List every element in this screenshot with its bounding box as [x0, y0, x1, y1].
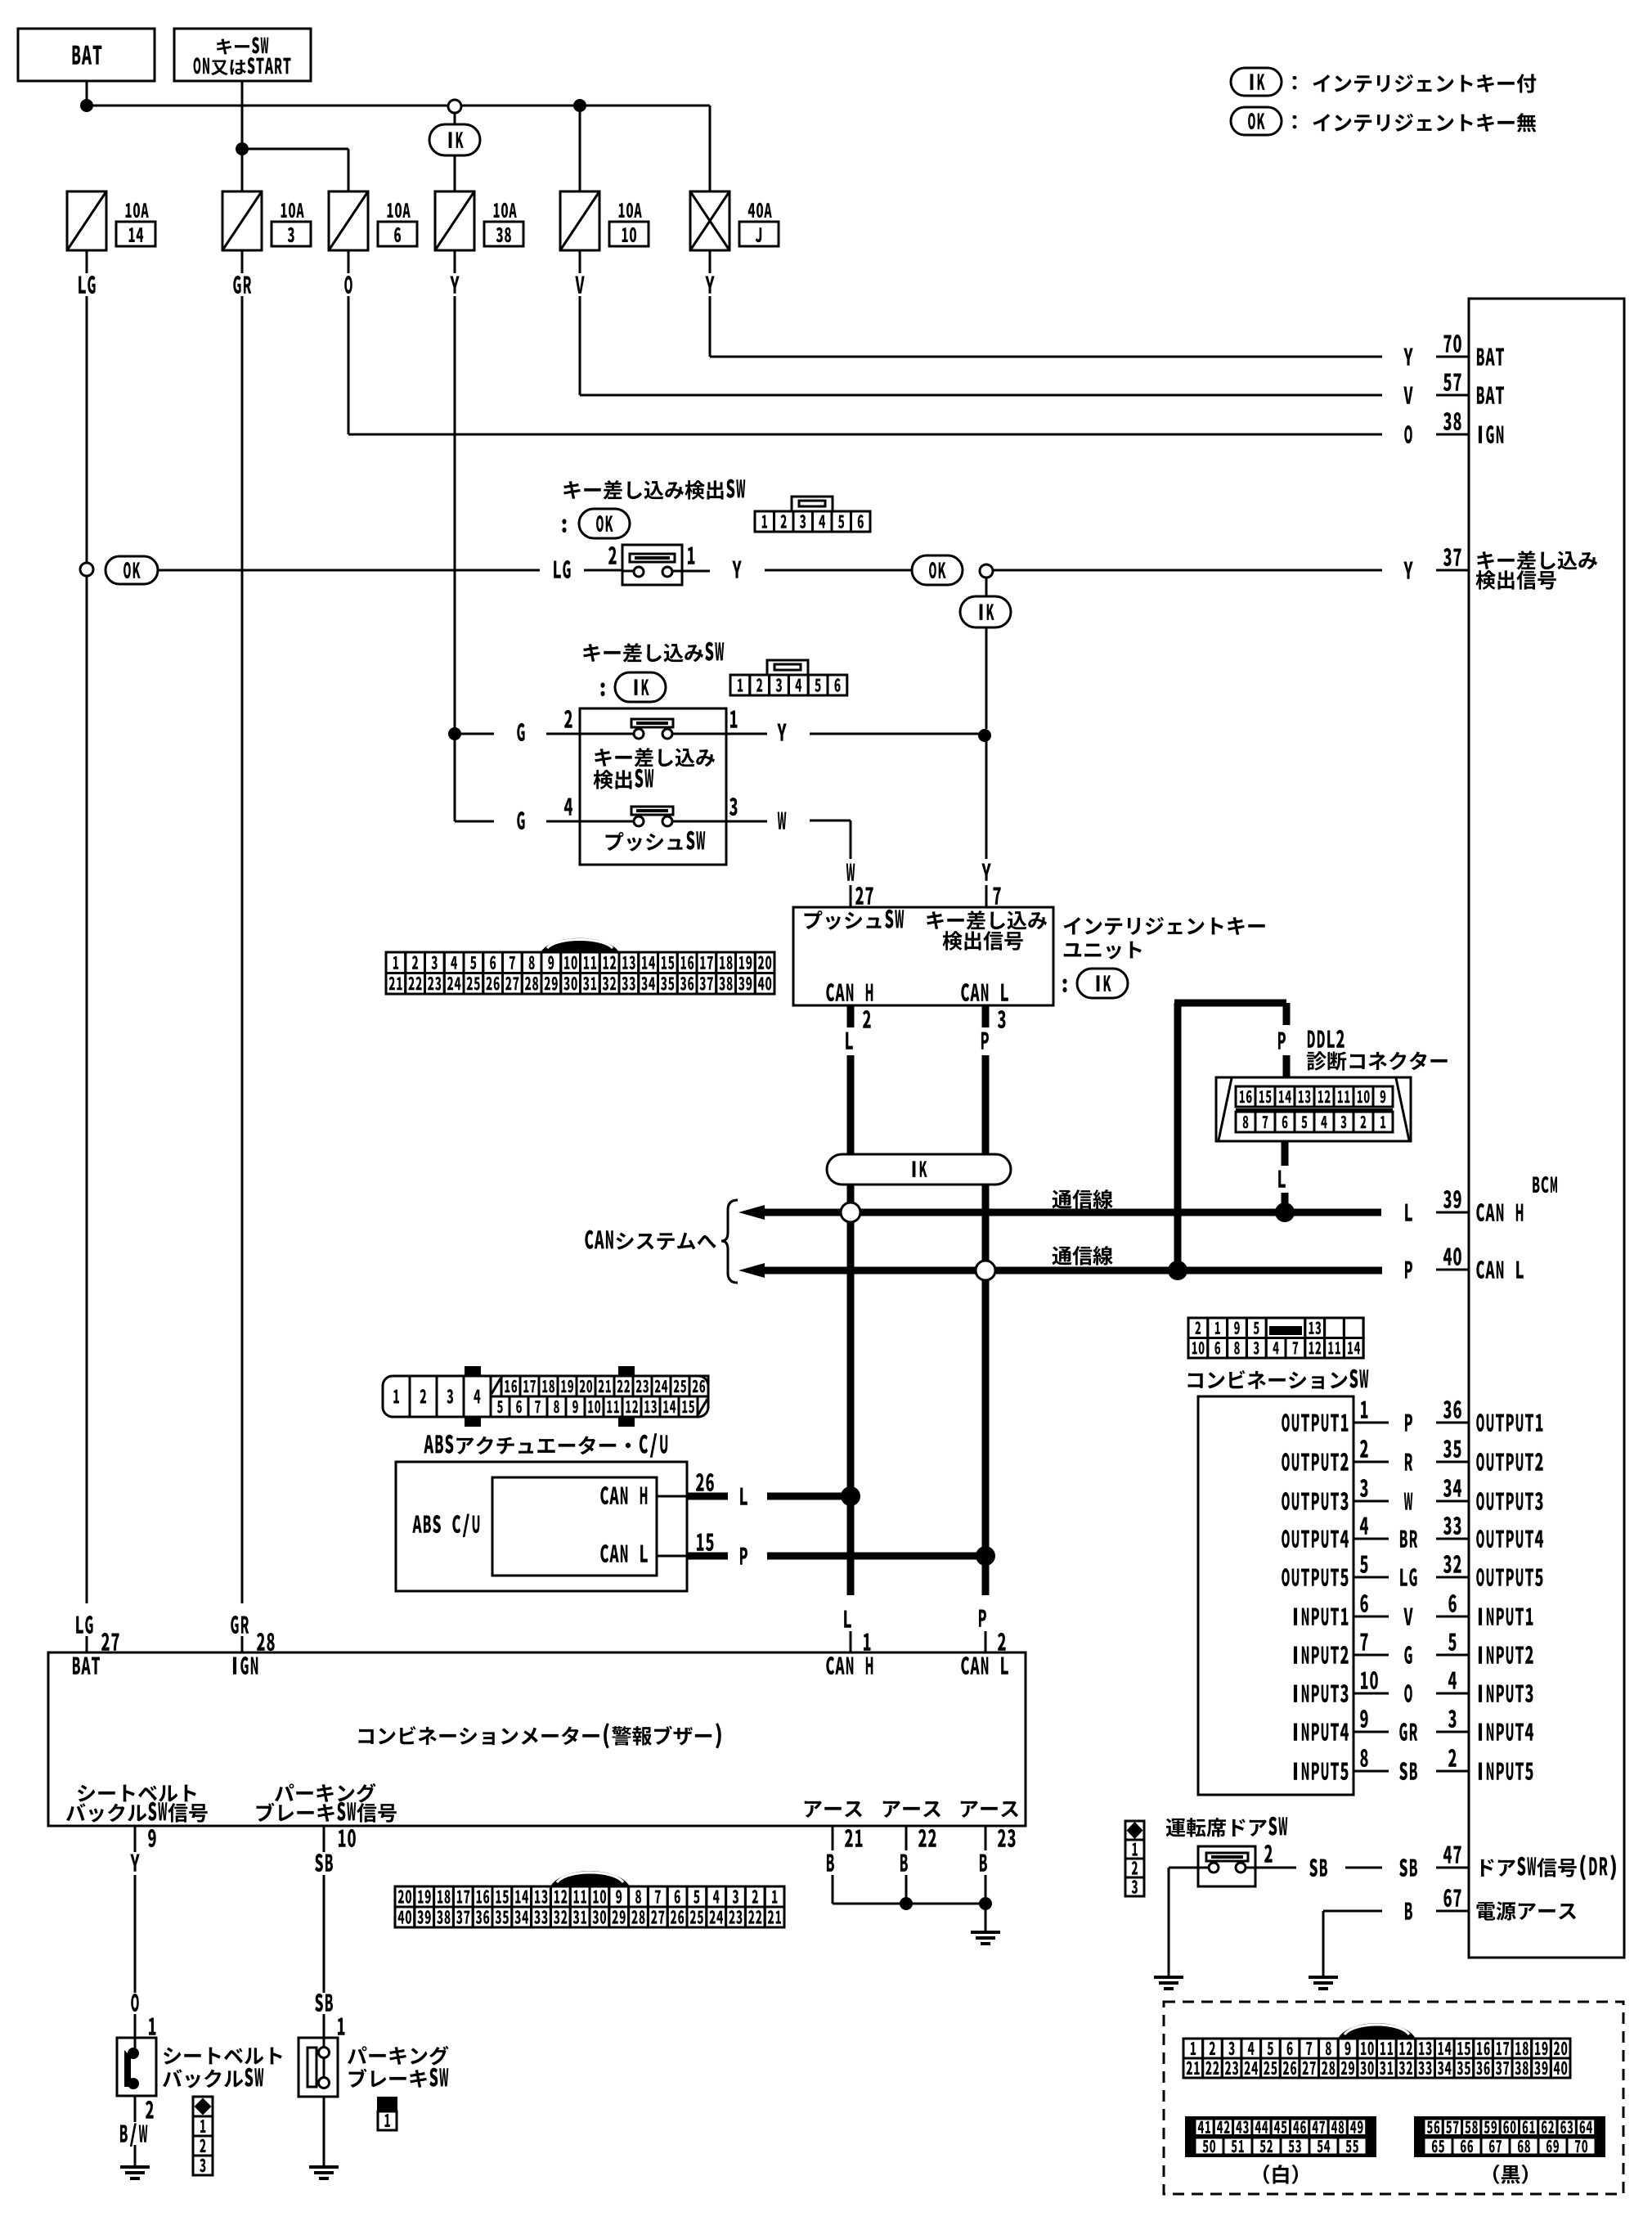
connector black 56-70: [1414, 2116, 1605, 2157]
node circle junction: [980, 564, 993, 578]
BCM label: [1533, 1176, 1557, 1193]
unit pin label push SW: [805, 910, 905, 930]
BCM pin 57 BAT: [1403, 373, 1504, 403]
combination SW pin 6 / BCM pin 6 INPUT1: [1294, 1607, 1349, 1625]
junction G branch on Y column: [448, 727, 461, 740]
meter label parking: [275, 1783, 376, 1803]
connector 123 (seat belt): [193, 2097, 213, 2116]
meter pin name BAT: [73, 1657, 100, 1674]
switch key-insert-detect inside: [631, 719, 673, 727]
wire GR vertical full: [241, 296, 244, 1603]
wire IK oval to fuse 38: [454, 155, 456, 191]
wire O from fuse 6 to BCM pin 38: [348, 296, 350, 434]
connector 26pin ABS: [383, 1376, 708, 1417]
wire color label V below fuse: [579, 250, 581, 273]
combination SW pin 10 / BCM pin 4 INPUT3: [1294, 1684, 1349, 1702]
power source key-SW box: [174, 29, 311, 81]
label tsushinsen 1: [1053, 1189, 1113, 1209]
legend OK oval: [1231, 107, 1282, 135]
wire Y column down to pin 4 corner: [454, 734, 456, 821]
wire Y down to pin 7: [985, 735, 988, 859]
connector 123 (door SW): [1125, 1821, 1144, 1840]
ABS C/U inner box: [492, 1477, 657, 1576]
fuse 6 10A: [329, 191, 368, 250]
BCM pin 70 BAT: [1403, 335, 1504, 366]
junction ABS CAN H: [841, 1486, 860, 1506]
wire LG branch to switch: [158, 569, 540, 572]
wire door SW to ground: [1169, 1867, 1198, 1869]
label driver door SW: [1166, 1817, 1288, 1837]
parking ground: [323, 2097, 325, 2167]
label key-insert SW (IK): [583, 642, 724, 663]
wire color label O below fuse: [348, 250, 350, 273]
wire DDL2 P elbow: [1174, 1003, 1182, 1270]
label inside: push SW: [606, 831, 706, 852]
connector 40pin (BCM white): [1338, 2023, 1416, 2039]
wire Y from fuse 38 down: [454, 296, 456, 734]
wire branch to fuse 6: [242, 148, 348, 151]
fuse 38 10A: [435, 191, 474, 250]
meter pin 23: [985, 1826, 987, 1850]
label ABS C/U: [412, 1513, 479, 1537]
node circle CAN H x IK column: [841, 1203, 860, 1222]
power source BAT box: [18, 29, 155, 81]
wire BAT drop: [86, 81, 88, 106]
node circle CAN L x P column: [976, 1261, 995, 1280]
wire color label GR below fuse: [241, 250, 244, 273]
fuse 14 10A: [67, 191, 106, 250]
connector 40pin (meter) upper: [541, 938, 619, 952]
unit pin label CAN H: [826, 983, 873, 1001]
BCM pin 47 door SW signal: [1399, 1846, 1616, 1880]
junction DDL2 L on CAN H: [1275, 1203, 1295, 1222]
wire CAN H horizontal to BCM 39: [738, 1205, 765, 1220]
junction keySW branch: [236, 142, 249, 155]
fusible link J 40A: [690, 191, 729, 250]
wire B ground to BCM 67: [1323, 1910, 1382, 1913]
junction DDL2 P on CAN L: [1168, 1261, 1187, 1280]
connector white 41-55: [1185, 2116, 1376, 2157]
combination SW pin 7 / BCM pin 5 INPUT2: [1294, 1646, 1349, 1664]
wire Y to BCM pin 37: [993, 569, 1382, 572]
dashed connector detail box: [1164, 2002, 1623, 2194]
unit name intelligent key unit: [1064, 917, 1265, 935]
OK oval on LG branch: [105, 556, 158, 584]
meter pin 9 seat belt: [134, 1826, 137, 1852]
junction bus at BAT: [80, 99, 93, 112]
combination SW pin 5 / BCM pin 32 OUTPUT5: [1282, 1568, 1348, 1586]
BCM pin 39 CAN H: [1405, 1190, 1523, 1221]
wire W from pin 3: [729, 798, 738, 816]
BCM pin 37 key-insert signal: [1403, 548, 1597, 590]
wire color label Y below fuse: [709, 250, 712, 273]
door SW box: [1198, 1846, 1255, 1886]
BCM pin 38 IGN: [1404, 412, 1503, 443]
connector 1 (parking): [377, 2097, 397, 2111]
DDL2 connector: [1216, 1077, 1411, 1141]
wire bus to fuse 10: [579, 106, 581, 191]
combination SW pin 4 / BCM pin 33 OUTPUT4: [1282, 1530, 1349, 1548]
ABS C/U outer box: [396, 1462, 687, 1591]
wire CAN L horizontal to BCM 40: [738, 1263, 765, 1278]
unit pin label key insert: [927, 910, 1047, 930]
label parking brake SW: [348, 2046, 449, 2066]
BCM pin 40 CAN L: [1405, 1248, 1524, 1279]
junction ABS CAN L: [976, 1546, 995, 1566]
seat belt buckle SW box: [117, 2038, 156, 2096]
wire G to pin 2: [455, 733, 494, 735]
BCM box: [1469, 299, 1624, 1958]
key insert detect switch (OK): [622, 545, 682, 585]
key insert SW (IK) box: [580, 708, 726, 865]
IK capsule over CAN pair: [827, 1154, 1011, 1185]
connector 6pin (OK switch): [792, 497, 833, 511]
wire CAN H vertical (L): [847, 1005, 855, 1027]
wire LG vertical full: [86, 296, 88, 563]
label inside: key insert detect SW: [595, 748, 715, 767]
IK oval (bus): [429, 124, 480, 155]
combination SW pin 1 / BCM pin 36 OUTPUT1: [1282, 1414, 1348, 1432]
ABS pin CAN L 15: [600, 1544, 648, 1562]
fuse 10 10A: [560, 191, 599, 250]
CAN H meter stub: [844, 1610, 851, 1627]
buckle icon: [134, 2038, 137, 2050]
label combination SW: [1188, 1369, 1369, 1390]
combination SW pin 9 / BCM pin 3 INPUT4: [1294, 1723, 1349, 1741]
meter label seat belt: [78, 1785, 196, 1802]
combination SW box: [1198, 1396, 1353, 1795]
label ABS actuator C/U: [424, 1433, 667, 1458]
wire V from fuse 10 to BCM pin 57: [579, 296, 581, 395]
ground meter: [971, 1931, 1000, 1934]
OK oval right: [912, 555, 963, 585]
meter pin name CAN L: [961, 1657, 1008, 1675]
wire bus BAT horizontal: [87, 105, 710, 107]
junction bus at fuse10: [573, 99, 586, 112]
BCM pin 67 power ground: [1405, 1889, 1576, 1921]
wire CAN L vertical (P): [982, 1005, 990, 1027]
label seat belt buckle SW: [164, 2048, 282, 2065]
combination SW pin 2 / BCM pin 35 OUTPUT2: [1282, 1453, 1348, 1471]
node IK option on bus: [448, 100, 461, 113]
brace: [721, 1200, 738, 1283]
node option circle on LG wire: [80, 563, 93, 576]
combination SW pin 3 / BCM pin 34 OUTPUT3: [1282, 1492, 1348, 1510]
wire bus corner to fuse J: [709, 106, 712, 191]
parking icon: [308, 2048, 316, 2087]
fuse 3 10A: [222, 191, 262, 250]
wire Y from fuse J to BCM pin 70: [709, 296, 712, 357]
label tsushinsen 2: [1053, 1246, 1113, 1266]
wire W corner down: [850, 821, 852, 859]
wire color label LG below fuse: [86, 250, 88, 273]
meter pin 10 parking: [323, 1826, 325, 1852]
label DDL2: [1308, 1030, 1344, 1048]
CAN L meter stub: [979, 1609, 986, 1626]
ABS pin CAN H 26: [600, 1486, 647, 1504]
meter pin name IGN: [233, 1657, 258, 1675]
meter pin name CAN H: [826, 1657, 873, 1675]
intelligent key unit box: [793, 907, 1053, 1005]
wire Y from pin 1: [730, 710, 738, 727]
wire G to pin 4: [455, 821, 494, 823]
unit pin label CAN L: [961, 983, 1008, 1001]
connector 6pin (IK switch): [767, 660, 808, 675]
meter pin 21: [832, 1826, 834, 1850]
meter title: [359, 1723, 721, 1748]
connector combination SW: [1188, 1318, 1363, 1358]
wire Y from switch to OK oval: [682, 570, 710, 573]
wire keySW vertical to fuse 3: [241, 81, 244, 191]
wire DDL2 L to CAN H: [1282, 1141, 1289, 1166]
seat belt pin 2 B/W ground: [146, 2101, 154, 2119]
IK oval below junction: [985, 578, 988, 596]
wire SB door SW to BCM: [1255, 1867, 1296, 1869]
junction pin1-Y to IK column: [978, 729, 991, 742]
combination meter box: [48, 1652, 1026, 1826]
ground bus meter: [833, 1903, 985, 1905]
connector 40pin (meter) lower: [550, 1871, 630, 1886]
label key-insert-detect SW (OK): [563, 479, 745, 500]
meter label earth x3: [805, 1801, 862, 1818]
wire color label Y below fuse: [454, 250, 456, 273]
label CAN system: [585, 1230, 716, 1251]
legend IK oval: [1231, 68, 1282, 96]
switch push SW inside: [631, 807, 673, 815]
wire IK drop to key SW unit: [985, 627, 988, 729]
meter pin 22: [905, 1826, 908, 1850]
combination SW pin 8 / BCM pin 2 INPUT5: [1294, 1762, 1349, 1780]
parking brake SW box: [299, 2038, 338, 2097]
